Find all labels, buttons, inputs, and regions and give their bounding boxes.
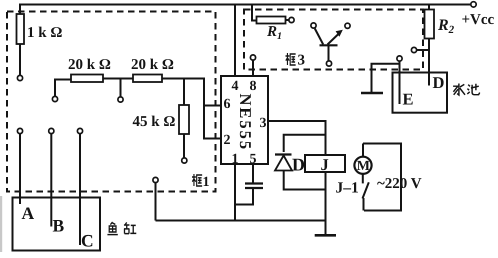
svg-text:D: D (433, 73, 445, 92)
svg-text:6: 6 (224, 97, 231, 112)
svg-text:3: 3 (260, 116, 267, 131)
svg-text:2: 2 (224, 133, 231, 148)
svg-text:1: 1 (232, 152, 239, 167)
svg-text:~220 V: ~220 V (377, 176, 422, 192)
svg-text:45 k Ω: 45 k Ω (133, 114, 176, 130)
svg-text:+Vcc: +Vcc (462, 12, 495, 28)
svg-text:E: E (403, 90, 414, 109)
svg-text:1 k Ω: 1 k Ω (27, 25, 62, 41)
svg-text:C: C (81, 231, 94, 251)
svg-text:B: B (53, 216, 65, 236)
svg-text:M: M (357, 159, 370, 174)
svg-text:A: A (22, 203, 35, 223)
svg-text:J: J (321, 155, 329, 174)
svg-text:J–1: J–1 (336, 180, 359, 197)
svg-text:3: 3 (298, 53, 306, 69)
svg-text:20 k Ω: 20 k Ω (68, 57, 111, 73)
svg-text:D: D (292, 155, 305, 175)
svg-text:5: 5 (250, 152, 257, 167)
svg-text:4: 4 (232, 79, 239, 94)
svg-text:1: 1 (203, 175, 210, 190)
svg-text:NE555: NE555 (236, 94, 255, 152)
svg-text:8: 8 (250, 79, 257, 94)
svg-text:20 k Ω: 20 k Ω (131, 57, 174, 73)
